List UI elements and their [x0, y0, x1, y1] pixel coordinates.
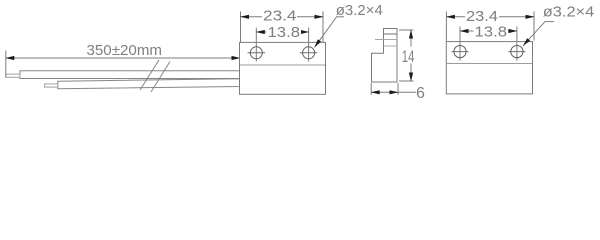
dimension 14 text	[401, 47, 416, 67]
hole H4 centerlines	[508, 27, 525, 61]
dimension 13.8 line (front view)	[256, 30, 309, 34]
label Ø3.2×4 (magnet view)	[543, 4, 595, 21]
dimension 23.4 line (magnet view)	[446, 15, 535, 19]
dimension 350±20mm extension line	[5, 51, 7, 78]
leader line Ø3.2×4 (magnet view)	[523, 22, 554, 46]
wire W1 bare end	[6, 74, 20, 77]
wire W1 (top lead)	[20, 71, 240, 79]
wire W2 (bottom lead)	[58, 79, 240, 89]
dimension 23.4 text (front view)	[262, 7, 297, 24]
dimension 13.8 line (magnet view)	[460, 29, 518, 33]
magnet body step line	[447, 63, 532, 65]
svg-text:6: 6	[416, 85, 425, 102]
cable break symbol	[140, 60, 170, 92]
dimension 14 line	[409, 30, 413, 82]
hole H4 (right, Ø3.2)	[511, 46, 523, 58]
leader line Ø3.2×4 (front view)	[315, 17, 345, 48]
dimension 23.4 extension lines (magnet view)	[446, 12, 534, 42]
switch body step line	[240, 64, 325, 66]
svg-text:14: 14	[402, 47, 415, 66]
hole H2 (right, Ø3.2)	[303, 47, 315, 59]
dimension 14 extension lines	[399, 30, 414, 81]
dimension 350±20mm text	[87, 42, 163, 59]
switch side view outline	[372, 29, 398, 83]
side view band line 1	[384, 33, 398, 35]
side view band line 3	[384, 45, 398, 47]
wire W2 bare end	[45, 84, 58, 87]
dimension 23.4 text (magnet view)	[465, 8, 499, 25]
dimension 13.8 text (front view)	[267, 24, 302, 41]
hole H3 centerlines	[452, 27, 469, 61]
hole H2 centerlines	[300, 28, 318, 62]
dimension 350±20mm line	[5, 56, 240, 60]
magnet body (front view)	[446, 42, 532, 94]
dimension 6 line with leader	[371, 90, 416, 94]
dimension 6 text	[416, 85, 425, 102]
dimension 23.4 extension lines (front view)	[241, 12, 324, 43]
svg-text:ø3.2×4: ø3.2×4	[543, 4, 595, 21]
dimension 6 extension lines	[371, 83, 398, 95]
hole H1 (left, Ø3.2)	[250, 47, 262, 59]
side view band line 2	[375, 39, 397, 41]
label Ø3.2×4 (front view)	[336, 2, 383, 19]
hole H1 centerlines	[248, 28, 266, 62]
svg-text:13.8: 13.8	[268, 24, 301, 41]
hole H3 (left, Ø3.2)	[454, 46, 466, 58]
svg-text:350±20mm: 350±20mm	[87, 42, 163, 59]
dimension 13.8 text (magnet view)	[474, 23, 509, 40]
dimension 23.4 line (front view)	[240, 15, 324, 19]
svg-text:13.8: 13.8	[475, 23, 508, 40]
switch body (front view)	[240, 42, 326, 94]
svg-text:23.4: 23.4	[263, 7, 297, 24]
